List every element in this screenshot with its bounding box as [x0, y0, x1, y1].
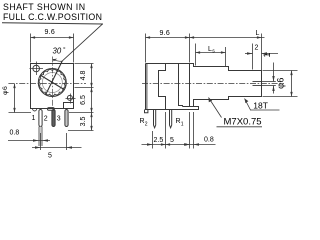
- side centerline: [142, 83, 284, 85]
- svg-text:SHAFT SHOWN IN: SHAFT SHOWN IN: [3, 2, 86, 12]
- svg-text:M7X0.75: M7X0.75: [224, 117, 262, 128]
- rotor knurl ring: [39, 69, 65, 95]
- mounting hole top-left: [33, 65, 40, 72]
- rotor outer circle: [38, 69, 66, 97]
- 30 deg label: [53, 46, 67, 56]
- dimension 4.8: [80, 71, 87, 81]
- bottom dimension line side view: [142, 112, 216, 149]
- bracket inner edge right: [179, 64, 183, 107]
- mounting plate rear face: [189, 64, 191, 107]
- pin 1 lead extension: [38, 127, 40, 147]
- bracket inner edge left: [146, 64, 148, 110]
- svg-text:1: 1: [181, 122, 184, 128]
- svg-text:18T: 18T: [253, 101, 268, 111]
- label M7X0.75 with leader: [209, 98, 222, 118]
- dimension 6.5: [80, 95, 87, 105]
- dimension 2 slot depth: [245, 44, 278, 70]
- svg-text:9.6: 9.6: [160, 30, 170, 37]
- dimension 5 front: [32, 133, 82, 150]
- R2 label: [140, 118, 148, 128]
- svg-text:2: 2: [255, 45, 259, 52]
- svg-text:2.5: 2.5: [154, 137, 164, 144]
- shaft slot line at 30 deg: [46, 61, 63, 95]
- svg-text:s: s: [212, 49, 215, 55]
- svg-text:0.8: 0.8: [10, 130, 20, 137]
- body step detail: [159, 64, 166, 110]
- svg-text:1: 1: [262, 52, 272, 57]
- dimension phi6 shaft: [263, 71, 298, 97]
- svg-text:2: 2: [44, 116, 48, 123]
- 30 deg arc arrow: [53, 59, 62, 61]
- side pin R1: [170, 110, 172, 128]
- svg-text:6.5: 6.5: [80, 95, 87, 105]
- dimension phi6 front: [9, 84, 32, 113]
- pin labels 1 2 3: [32, 115, 61, 123]
- svg-text:9.6: 9.6: [45, 29, 55, 36]
- dimension 9.6 side: [146, 34, 190, 63]
- dimension 3.5: [80, 117, 87, 127]
- chain arrows: [90, 64, 92, 69]
- svg-text:0.8: 0.8: [204, 137, 214, 144]
- side body outline: [146, 64, 262, 110]
- pin 1 front: [39, 110, 42, 127]
- dimension 0.8 pin front: [8, 140, 50, 142]
- label 18T with leader: [245, 99, 251, 111]
- dimension Ls: [196, 44, 226, 67]
- dimension 0.8 arrows: [184, 143, 190, 145]
- dimension 2.5 arrows: [147, 143, 153, 145]
- pin 2 front: [52, 110, 55, 127]
- dimension L: [190, 34, 265, 71]
- svg-text:φ6: φ6: [275, 77, 285, 89]
- boss below bottom-right hole: [64, 103, 74, 109]
- mounting hole bottom-right crosshairs: [70, 94, 72, 104]
- right-side dimension chain extension lines: [68, 64, 94, 131]
- pocket below bottom-left corner: [33, 109, 37, 111]
- svg-text:FULL C.C.W.POSITION: FULL C.C.W.POSITION: [3, 12, 102, 22]
- svg-text:3: 3: [57, 116, 61, 123]
- R1 label: [176, 118, 184, 128]
- dimension 9.6 front: [31, 34, 74, 63]
- svg-text:5: 5: [48, 153, 52, 160]
- svg-text:R: R: [176, 118, 181, 125]
- pin 2 base pad: [48, 108, 55, 111]
- svg-text:30: 30: [53, 47, 62, 56]
- svg-text:L: L: [256, 30, 260, 37]
- svg-text:4.8: 4.8: [80, 71, 87, 81]
- note text SHAFT SHOWN IN / FULL C.C.W.POSITION: [3, 2, 102, 22]
- svg-text:1: 1: [32, 115, 36, 122]
- front vertical centerline: [52, 57, 54, 111]
- shaft slot side lines: [253, 81, 262, 83]
- pin 3 front: [65, 110, 68, 127]
- svg-text:φ6: φ6: [2, 86, 9, 95]
- bracket foot: [183, 106, 199, 108]
- svg-text:2: 2: [145, 122, 148, 128]
- svg-text:°: °: [63, 46, 66, 54]
- side pin R2: [154, 110, 156, 128]
- front horizontal centerline: [8, 83, 86, 85]
- svg-text:5: 5: [170, 137, 174, 144]
- svg-text:R: R: [140, 118, 145, 125]
- slot perpendicular line: [40, 75, 64, 90]
- note underline: [2, 23, 103, 24]
- dimension 5 arrows: [166, 143, 171, 145]
- svg-text:3.5: 3.5: [80, 117, 87, 127]
- dimension 1 slot width: [262, 63, 276, 94]
- front view body outline: [31, 64, 74, 109]
- dimension texts 2.5 5 0.8: [154, 137, 214, 145]
- mounting hole bottom-right: [67, 95, 72, 100]
- rotor knurl inner circle: [42, 73, 62, 93]
- leader from note to shaft slot: [62, 24, 102, 61]
- bracket left tab: [145, 110, 148, 113]
- mounting hole top-left crosshairs: [36, 62, 38, 76]
